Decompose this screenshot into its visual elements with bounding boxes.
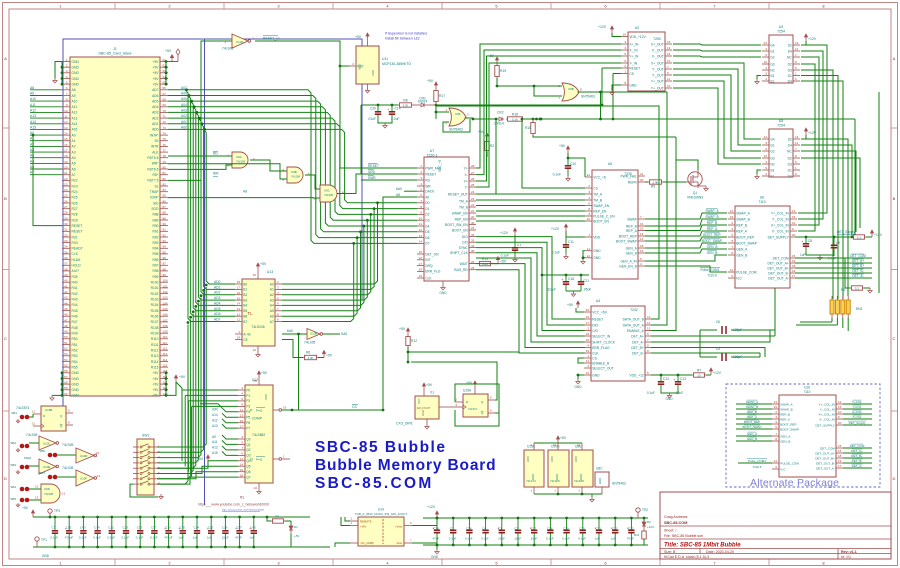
svg-text:18: 18: [640, 244, 644, 248]
wire U8A second input loop: [443, 119, 470, 132]
wire J1 bottom +5V pins 116-120 tie: [165, 373, 167, 396]
transistor Q1 VN0106N3: [688, 172, 702, 186]
capacitor C37 0.1uF: [153, 517, 155, 531]
wire +12V rail right cap bank: [423, 517, 648, 519]
coil driver U5 7254: [769, 129, 793, 177]
svg-text:X1: X1: [430, 391, 434, 395]
capacitor C23 0.1uF: [125, 517, 127, 531]
svg-text:D1: D1: [788, 168, 792, 172]
svg-text:22: 22: [471, 203, 475, 207]
svg-text:19: 19: [419, 274, 423, 278]
svg-text:36: 36: [64, 256, 68, 260]
comparator U12 74LS682: [245, 385, 273, 483]
svg-text:Title: SBC-85 1Mbit Bubble: Title: SBC-85 1Mbit Bubble: [664, 543, 741, 549]
svg-text:13: 13: [35, 496, 39, 500]
svg-text:A5: A5: [30, 159, 34, 163]
wire bus U3 outputs down right side: [798, 45, 843, 299]
svg-text:TM_B: TM_B: [593, 198, 603, 202]
svg-text:1uF: 1uF: [207, 536, 212, 540]
wire U14 +12V output: [412, 518, 437, 526]
svg-text:46: 46: [64, 313, 68, 317]
svg-text:C4: C4: [482, 527, 486, 531]
svg-text:U6: U6: [608, 162, 612, 166]
svg-text:R49: R49: [72, 332, 78, 336]
svg-text:+12V: +12V: [713, 371, 722, 375]
svg-text:114: 114: [163, 358, 168, 362]
svg-text:106: 106: [163, 313, 168, 317]
svg-text:DET_OUT_A-: DET_OUT_A-: [816, 466, 835, 470]
svg-text:R44: R44: [72, 303, 78, 307]
svg-text:A13: A13: [212, 446, 218, 450]
svg-text:U5: U5: [779, 119, 784, 123]
svg-text:KiCad E.D.A. kicad (5.1.5)-3: KiCad E.D.A. kicad (5.1.5)-3: [664, 555, 709, 559]
capacitor C32 1uF: [614, 518, 616, 530]
svg-text:A3: A3: [270, 298, 274, 302]
svg-text:22: 22: [587, 173, 591, 177]
svg-text:R6: R6: [306, 351, 310, 355]
svg-text:15: 15: [838, 405, 842, 409]
svg-text:SYNC: SYNC: [459, 246, 469, 250]
svg-text:11: 11: [62, 492, 65, 496]
svg-text:DET_A+: DET_A+: [852, 259, 864, 263]
svg-text:7230: 7230: [624, 172, 632, 176]
svg-text:If Supervisor is not installed: If Supervisor is not installed,: [385, 32, 427, 36]
svg-text:R39: R39: [72, 275, 78, 279]
svg-text:1uF: 1uF: [595, 537, 600, 541]
svg-text:Rev: v1.1: Rev: v1.1: [841, 550, 857, 554]
svg-text:REP_B: REP_B: [780, 412, 790, 416]
svg-text:+: +: [801, 240, 803, 244]
test point TP3: [48, 509, 52, 513]
svg-text:C6: C6: [716, 320, 720, 324]
svg-text:111: 111: [163, 341, 168, 345]
svg-text:R95: R95: [152, 252, 158, 256]
svg-text:19: 19: [838, 459, 842, 463]
svg-text:14: 14: [553, 443, 557, 447]
svg-text:GEN_A: GEN_A: [747, 432, 757, 436]
svg-text:26: 26: [471, 177, 475, 181]
svg-text:0.1uF: 0.1uF: [501, 254, 509, 258]
svg-text:+5V: +5V: [179, 375, 186, 379]
svg-text:12: 12: [667, 59, 671, 63]
power +5V at X1: [423, 390, 425, 396]
svg-text:A9: A9: [72, 94, 76, 98]
svg-text:SOD: SOD: [151, 207, 159, 211]
svg-text:X-_COL_IN: X-_COL_IN: [819, 417, 835, 421]
svg-text:19: 19: [586, 349, 590, 353]
svg-text:+12V: +12V: [551, 227, 560, 231]
svg-text:47uF: 47uF: [433, 537, 440, 541]
svg-text:RESET_uc: RESET_uc: [263, 37, 280, 41]
svg-text:A11: A11: [212, 440, 218, 444]
svg-text:Craig Andrews: Craig Andrews: [664, 515, 688, 519]
svg-text:+5V: +5V: [153, 66, 160, 70]
svg-text:107: 107: [163, 318, 168, 322]
svg-text:58: 58: [64, 381, 68, 385]
svg-text:1uF: 1uF: [249, 536, 254, 540]
svg-text:X+COL: X+COL: [852, 410, 862, 414]
svg-text:R92: R92: [152, 235, 158, 239]
wire Q1 drain up: [676, 160, 698, 170]
capacitor C2 0.1uF: [452, 518, 454, 530]
svg-text:CS: CS: [592, 356, 597, 360]
svg-text:10: 10: [667, 84, 671, 88]
svg-text:A1: A1: [30, 137, 34, 141]
svg-text:14: 14: [419, 240, 423, 244]
svg-text:SHIFT_CLK: SHIFT_CLK: [450, 251, 469, 255]
svg-text:77: 77: [163, 149, 167, 153]
svg-text:17: 17: [64, 149, 68, 153]
svg-text:7110.6: 7110.6: [753, 465, 762, 469]
svg-text:TM_A: TM_A: [593, 192, 603, 196]
svg-text:TM_A: TM_A: [459, 199, 469, 203]
alternate bubble memory U16 7110: [779, 395, 836, 477]
svg-text:SWAP_EN: SWAP_EN: [593, 204, 610, 208]
svg-text:Date: 2020-04-20: Date: 2020-04-20: [706, 550, 734, 554]
resistor R3 5.1 det supply: [852, 236, 854, 238]
svg-text:CXO_DIP8: CXO_DIP8: [396, 422, 412, 426]
svg-text:74LS05: 74LS05: [304, 341, 316, 345]
svg-text:A3: A3: [72, 150, 76, 154]
svg-text:R10: R10: [525, 126, 531, 130]
wire detector supply: [795, 236, 852, 238]
svg-text:C1: C1: [498, 527, 502, 531]
svg-text:10: 10: [419, 216, 423, 220]
wire U9B output to U9C: [305, 175, 320, 189]
wire U13 CS vertical to comparator output net: [298, 334, 300, 410]
svg-text:ENABLE_A: ENABLE_A: [627, 329, 645, 333]
svg-text:15: 15: [586, 338, 590, 342]
svg-text:54: 54: [64, 358, 68, 362]
svg-text:R100: R100: [151, 281, 159, 285]
power +12V at det supply: [871, 233, 873, 237]
svg-text:G3: G3: [770, 62, 775, 66]
svg-text:DET_B-: DET_B-: [852, 459, 863, 463]
svg-text:19: 19: [774, 405, 778, 409]
svg-text:BUS_RD: BUS_RD: [454, 268, 468, 272]
svg-text:VN0106N3: VN0106N3: [687, 196, 703, 200]
svg-text:A8: A8: [30, 86, 34, 90]
test point TP2: [636, 508, 640, 512]
resistor R13 with +5V at U7 WAIT: [469, 263, 478, 265]
svg-text:CS: CS: [352, 405, 357, 409]
svg-text:5.1K: 5.1K: [512, 117, 518, 121]
svg-text:11: 11: [240, 408, 243, 412]
svg-text:19: 19: [64, 160, 68, 164]
svg-text:B7: B7: [243, 320, 247, 324]
svg-text:R107: R107: [151, 320, 159, 324]
svg-text:R108: R108: [151, 326, 159, 330]
svg-text:D2: D2: [647, 520, 651, 524]
ground at SW1: [130, 484, 158, 497]
svg-text:+5V: +5V: [559, 144, 566, 148]
svg-text:BOOT_SWAP: BOOT_SWAP: [780, 427, 799, 431]
svg-text:R11: R11: [634, 533, 640, 537]
svg-text:DET_OUT_B+: DET_OUT_B+: [767, 266, 788, 270]
svg-text:C26: C26: [222, 526, 228, 530]
svg-text:U8A: U8A: [455, 112, 461, 116]
ground at U13: [257, 346, 259, 352]
svg-text:11: 11: [237, 318, 240, 322]
svg-text:74LS05: 74LS05: [26, 433, 38, 437]
net labels A0-A7 on J1 left: [30, 134, 62, 136]
svg-text:VDD: VDD: [593, 235, 601, 239]
power +5V near U12 Q: [207, 458, 209, 462]
svg-text:A5: A5: [270, 309, 274, 313]
svg-text:71: 71: [163, 115, 167, 119]
svg-text:DET_ON: DET_ON: [425, 252, 439, 256]
svg-text:NC: NC: [787, 149, 792, 153]
svg-text:11: 11: [419, 222, 422, 226]
capacitor C1 .15uF: [501, 518, 503, 530]
wire R9 to Q1 gate: [663, 181, 686, 183]
svg-text:+12V: +12V: [874, 233, 883, 237]
svg-text:+5V: +5V: [294, 534, 299, 538]
svg-text:AD5: AD5: [214, 307, 221, 311]
svg-text:12: 12: [419, 228, 423, 232]
svg-text:74LS574: 74LS574: [16, 406, 29, 410]
svg-text:Y-_OUT: Y-_OUT: [652, 67, 664, 71]
svg-text:49: 49: [64, 330, 68, 334]
svg-text:DET_A-: DET_A-: [852, 464, 863, 468]
svg-text:SB7: SB7: [39, 471, 45, 475]
function driver U1 7230: [592, 170, 638, 279]
svg-text:SN75463: SN75463: [449, 128, 463, 132]
svg-text:SWAP_B: SWAP_B: [780, 407, 792, 411]
svg-text:DET_COM: DET_COM: [820, 446, 835, 450]
svg-text:11: 11: [774, 459, 777, 463]
svg-text:0.1uF: 0.1uF: [136, 536, 144, 540]
svg-text:12: 12: [647, 315, 651, 319]
svg-text:ALE: ALE: [152, 150, 159, 154]
svg-text:P2: P2: [246, 399, 250, 403]
svg-text:P=Q: P=Q: [256, 409, 263, 413]
svg-text:74LS08: 74LS08: [291, 175, 301, 179]
title block outline: [660, 492, 891, 559]
svg-text:VCC_+5: VCC_+5: [438, 160, 442, 172]
svg-text:A6: A6: [270, 315, 274, 319]
svg-text:D3: D3: [788, 68, 792, 72]
svg-text:+12V: +12V: [598, 25, 607, 29]
svg-text:DET_OUT_B-: DET_OUT_B-: [768, 271, 789, 275]
svg-text:A6: A6: [72, 167, 76, 171]
svg-text:13: 13: [419, 234, 423, 238]
svg-text:S1: S1: [770, 79, 774, 83]
svg-text:A6: A6: [30, 165, 34, 169]
svg-text:101: 101: [163, 284, 168, 288]
diode CR2 1N914: [497, 118, 499, 120]
spare gate U15C 74LS74: [524, 450, 544, 487]
ground at J1 pins 1-5: [54, 78, 56, 81]
svg-text:C9: C9: [836, 241, 840, 245]
wire +5V pull header to U12 P0-P3: [176, 382, 238, 477]
svg-text:20: 20: [253, 273, 257, 277]
svg-text:99: 99: [163, 273, 167, 277]
svg-text:DET_OUT_A+: DET_OUT_A+: [767, 261, 788, 265]
svg-text:32: 32: [471, 233, 475, 237]
svg-text:12: 12: [97, 474, 101, 478]
svg-text:D7: D7: [425, 242, 429, 246]
svg-text:R29: R29: [72, 218, 78, 222]
svg-text:27: 27: [64, 205, 68, 209]
svg-text:17: 17: [419, 262, 423, 266]
svg-text:AD7: AD7: [214, 318, 221, 322]
svg-text:C28: C28: [547, 527, 553, 531]
capacitor C3 .15uF: [517, 518, 519, 530]
svg-text:U15B: U15B: [45, 408, 52, 412]
svg-text:P6: P6: [246, 421, 250, 425]
wire bus U13 outputs up to U7 data bus: [282, 201, 379, 321]
coil driver U3 7254: [769, 35, 793, 83]
wire WR from J1 to U9B: [168, 164, 287, 179]
svg-text:GEN_A: GEN_A: [707, 245, 719, 249]
svg-text:R45: R45: [72, 309, 78, 313]
svg-text:100: 100: [163, 279, 168, 283]
svg-text:C8: C8: [808, 239, 812, 243]
svg-text:A1: A1: [72, 139, 76, 143]
wire bus verticals continuing to SW1: [157, 284, 208, 485]
svg-text:X-_OUT: X-_OUT: [652, 48, 664, 52]
svg-text:14: 14: [640, 237, 644, 241]
svg-text:Q: Q: [250, 458, 253, 462]
svg-text:20: 20: [471, 215, 475, 219]
svg-text:REP_B: REP_B: [747, 410, 757, 414]
svg-text:+5V: +5V: [355, 35, 362, 39]
svg-text:A1: A1: [270, 288, 274, 292]
svg-text:+5V: +5V: [153, 71, 160, 75]
wire U15A Q output to clock net: [411, 362, 497, 400]
svg-text:76: 76: [163, 143, 167, 147]
svg-text:X-_OUT: X-_OUT: [652, 54, 664, 58]
svg-text:AD2: AD2: [214, 291, 221, 295]
svg-text:READY: READY: [72, 247, 84, 251]
svg-text:RESET: RESET: [592, 317, 603, 321]
svg-text:ERR_FLG: ERR_FLG: [425, 270, 441, 274]
svg-text:34: 34: [471, 244, 475, 248]
svg-text:S1: S1: [154, 184, 158, 188]
svg-text:74LS08: 74LS08: [44, 492, 54, 496]
capacitor C33 47uF: [630, 518, 632, 530]
svg-text:File: SBC-85 Bubble.sch: File: SBC-85 Bubble.sch: [664, 534, 703, 538]
svg-text:R17: R17: [439, 94, 445, 98]
capacitor C10 0.1uF with +5V: [567, 149, 569, 153]
svg-text:R48: R48: [72, 326, 78, 330]
buffer U13 74LS245: [242, 279, 275, 346]
svg-text:94: 94: [163, 245, 167, 249]
svg-text:0.1uF: 0.1uF: [481, 537, 489, 541]
svg-text:X+_COL_IN: X+_COL_IN: [771, 223, 789, 227]
svg-text:SHIFT_CLOCK: SHIFT_CLOCK: [592, 340, 616, 344]
svg-text:GEN_A: GEN_A: [736, 247, 748, 251]
resistor R6 3.3K: [303, 357, 305, 359]
power flag at J1 top: [177, 55, 179, 62]
svg-text:R26: R26: [72, 201, 78, 205]
svg-text:Y+COL: Y+COL: [852, 400, 862, 404]
svg-text:S4: S4: [788, 49, 792, 53]
svg-text:TP2: TP2: [642, 508, 648, 512]
svg-text:12: 12: [764, 135, 768, 139]
svg-text:SWAP_B: SWAP_B: [705, 215, 718, 219]
svg-text:GND: GND: [555, 474, 559, 480]
svg-text:R19: R19: [500, 69, 506, 73]
svg-text:Y+_OUT: Y+_OUT: [651, 86, 664, 90]
svg-text:0.1uF: 0.1uF: [51, 536, 59, 540]
capacitor C30 470uF: [168, 517, 170, 531]
svg-text:X-COL: X-COL: [852, 415, 862, 419]
svg-text:TRAP: TRAP: [150, 190, 160, 194]
svg-text:U7: U7: [430, 149, 435, 153]
svg-text:WR*: WR*: [152, 162, 159, 166]
svg-text:DET_B+: DET_B+: [852, 264, 864, 268]
svg-text:+5V: +5V: [153, 382, 160, 386]
svg-text:GND: GND: [72, 394, 80, 398]
svg-text:R53: R53: [72, 354, 78, 358]
svg-text:DET_COM: DET_COM: [850, 444, 865, 448]
svg-text:BOOT_SWAP: BOOT_SWAP: [616, 239, 638, 243]
svg-text:Q7: Q7: [246, 475, 251, 479]
svg-text:R110: R110: [151, 337, 159, 341]
svg-text:U10B: U10B: [310, 332, 317, 336]
and-gate U9A 74LS08: [232, 152, 248, 168]
ground at U5: [757, 170, 761, 174]
svg-text:79: 79: [163, 160, 167, 164]
svg-text:C29: C29: [563, 527, 569, 531]
svg-text:21: 21: [640, 172, 644, 176]
svg-text:20: 20: [254, 379, 258, 383]
svg-text:D: D: [893, 476, 896, 481]
svg-text:11: 11: [587, 247, 590, 251]
svg-text:A04: A04: [181, 103, 187, 107]
svg-text:SWAP_A: SWAP_A: [780, 402, 792, 406]
svg-text:SWAP_EN: SWAP_EN: [452, 211, 469, 215]
wire U4 data outputs up verticals: [436, 106, 659, 319]
svg-text:R27: R27: [72, 207, 78, 211]
svg-text:Y+_OUT: Y+_OUT: [651, 79, 664, 83]
svg-text:R43: R43: [72, 298, 78, 302]
wire J1 RST7.5 to U10A input: [168, 41, 232, 180]
svg-text:R109: R109: [151, 332, 159, 336]
svg-text:91: 91: [163, 228, 167, 232]
svg-text:D2: D2: [788, 62, 792, 66]
svg-text:WR: WR: [425, 184, 431, 188]
svg-text:INTA*: INTA*: [150, 133, 159, 137]
svg-text:C18: C18: [568, 277, 574, 281]
svg-text:P0: P0: [246, 388, 250, 392]
wire bus U7 timing outputs to U1 7230: [476, 118, 585, 221]
svg-text:53: 53: [64, 352, 68, 356]
svg-text:ALE*: ALE*: [72, 269, 80, 273]
svg-text:A11: A11: [30, 103, 36, 107]
capacitor C39 0.1uF: [468, 518, 470, 530]
svg-text:R99: R99: [152, 275, 158, 279]
svg-text:1N914: 1N914: [418, 99, 428, 103]
svg-text:15: 15: [237, 296, 241, 300]
svg-text:GND: GND: [574, 385, 582, 389]
svg-text:28: 28: [471, 164, 475, 168]
svg-text:C40: C40: [80, 526, 86, 530]
svg-text:80: 80: [163, 165, 167, 169]
wire J1 GND pins 1-5 tie: [55, 62, 62, 79]
svg-text:+Vout: +Vout: [395, 525, 402, 529]
svg-text:DET_B-: DET_B-: [852, 269, 863, 273]
svg-text:RST6.5: RST6.5: [147, 167, 158, 171]
svg-text:34: 34: [64, 245, 68, 249]
svg-text:R9: R9: [651, 185, 655, 189]
svg-text:A8: A8: [243, 190, 247, 194]
svg-text:A14: A14: [30, 120, 36, 124]
svg-text:SB3: SB3: [10, 463, 16, 467]
svg-text:A0: A0: [72, 133, 76, 137]
